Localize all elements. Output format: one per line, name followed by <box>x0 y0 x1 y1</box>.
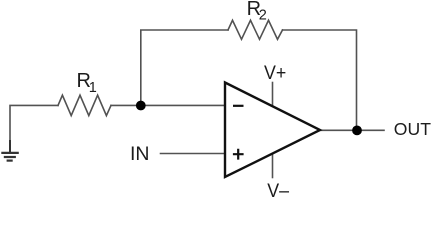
svg-text:1: 1 <box>89 80 97 96</box>
svg-text:2: 2 <box>259 8 267 24</box>
svg-text:V–: V– <box>267 180 289 197</box>
svg-text:V+: V+ <box>264 62 286 84</box>
svg-text:IN: IN <box>130 143 150 165</box>
svg-text:OUT: OUT <box>394 119 431 139</box>
